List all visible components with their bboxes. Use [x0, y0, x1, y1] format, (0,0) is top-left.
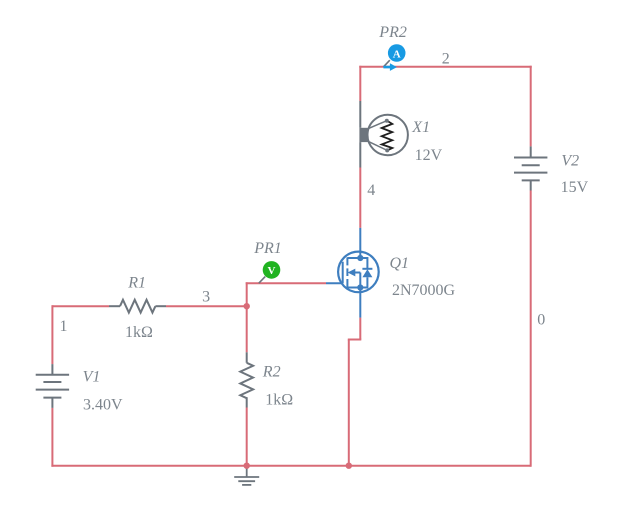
svg-text:PR2: PR2 [378, 24, 407, 41]
Q1 diode triangle [362, 269, 372, 277]
Q1 body circle [338, 252, 379, 293]
wire net0 jog vertical to rail [348, 340, 350, 466]
Q1 drain junction dot [357, 255, 363, 261]
Q1 drain lead [359, 228, 361, 258]
Q1 diode branch bottom [360, 277, 367, 287]
Q1 diode cathode bar [362, 268, 372, 270]
lamp bulb [368, 115, 408, 155]
PR1 circle [263, 261, 281, 279]
svg-text:1kΩ: 1kΩ [265, 392, 293, 409]
wire net1 V1 top vertical [51, 305, 53, 364]
wire net0 V2 bottom vertical [530, 191, 532, 467]
PR2 circle [388, 44, 406, 62]
wire net0 jog horizontal [348, 339, 362, 341]
svg-text:4: 4 [367, 182, 375, 199]
wire net2 left vertical (top corner to lamp lead) [359, 66, 361, 101]
svg-text:12V: 12V [415, 147, 443, 164]
Q1 drain contact [347, 257, 360, 259]
node junction ground/rail [244, 463, 250, 469]
Q1 channel segment middle [346, 268, 348, 276]
svg-text:X1: X1 [411, 119, 430, 136]
svg-text:V2: V2 [561, 152, 579, 169]
Q1 channel segment top [346, 257, 348, 265]
lamp filament support bottom [368, 141, 387, 150]
wire net3 horizontal to Q1 gate [246, 282, 326, 284]
PR1 leader [259, 277, 265, 284]
lamp filament zigzag [382, 121, 393, 151]
resistor R2 [240, 352, 253, 407]
Q1 body to source [359, 273, 361, 288]
lamp X1 [359, 101, 408, 168]
wire net4 lamp to Q1 drain [359, 168, 361, 228]
svg-text:PR1: PR1 [253, 240, 282, 257]
wire net0 V1 bottom vertical [51, 408, 53, 467]
svg-text:15V: 15V [561, 179, 589, 196]
wire net2 right vertical [530, 66, 532, 147]
Q1 body contact with arrow [355, 272, 361, 274]
battery V2 [514, 146, 547, 190]
wire net2 top horizontal [359, 66, 531, 68]
wire net3 R1 to node3 [166, 305, 247, 307]
transistor Q1 (2N7000G MOSFET) [326, 228, 379, 318]
svg-text:V: V [268, 265, 276, 277]
probe PR2 (current) [383, 44, 405, 71]
Q1 source contact [347, 287, 360, 289]
svg-text:A: A [393, 48, 401, 60]
svg-text:3.40V: 3.40V [83, 397, 123, 414]
PR2 leader [384, 60, 390, 67]
svg-text:0: 0 [537, 312, 545, 329]
svg-text:3: 3 [202, 289, 210, 306]
battery V1 [36, 364, 69, 408]
wire net3 node3 down to R2 [246, 306, 248, 352]
wire net0 Q1 source down [359, 318, 361, 340]
lamp socket [359, 128, 367, 142]
svg-text:R1: R1 [127, 275, 146, 292]
Q1 gate lead [326, 282, 343, 284]
wire net1 horizontal to R1 [52, 305, 109, 307]
wire net0 bottom rail [51, 465, 530, 467]
lamp filament dot top [385, 119, 389, 123]
lamp filament support top [368, 121, 387, 129]
Q1 channel segment bottom [346, 279, 348, 289]
Q1 source lead [359, 288, 361, 318]
ground [234, 467, 259, 485]
svg-text:1kΩ: 1kΩ [125, 324, 153, 341]
svg-text:2: 2 [442, 50, 450, 67]
node junction at node3 [244, 303, 250, 309]
svg-text:2N7000G: 2N7000G [392, 282, 456, 299]
svg-text:R2: R2 [262, 363, 281, 380]
probe PR1 (voltage) [259, 261, 281, 283]
svg-text:V1: V1 [83, 369, 101, 386]
Q1 diode branch top [360, 258, 367, 269]
Q1 source junction dot [357, 284, 363, 290]
wire net3 node3 vertical up [246, 282, 248, 307]
Q1 gate bar [342, 262, 344, 284]
resistor R1 [109, 300, 166, 313]
lamp filament dot bottom [385, 148, 389, 152]
node junction source/rail [346, 463, 352, 469]
svg-text:1: 1 [60, 318, 68, 335]
lamp lead bottom [359, 142, 361, 167]
lamp lead top [359, 101, 361, 128]
wire net0 R2 bottom to rail [246, 408, 248, 466]
PR2 arrow on wire [383, 63, 397, 71]
svg-text:Q1: Q1 [390, 255, 410, 272]
